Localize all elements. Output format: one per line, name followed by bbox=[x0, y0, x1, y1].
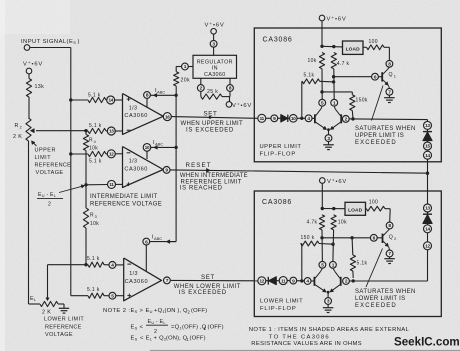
svg-text:SET: SET bbox=[201, 274, 215, 281]
resistor 5.1k op2 minus bbox=[71, 153, 88, 155]
svg-text:LOWER LIMIT: LOWER LIMIT bbox=[44, 317, 84, 323]
pin 15 upper chain bbox=[424, 142, 432, 150]
wire 100 to pin 8 lower bbox=[385, 208, 390, 210]
svg-text:(OFF): (OFF) bbox=[208, 325, 224, 331]
upper limit reference voltage label bbox=[32, 142, 37, 147]
IABC wire op2 bbox=[151, 146, 176, 148]
svg-text:10: 10 bbox=[145, 145, 150, 150]
svg-text:5.1k: 5.1k bbox=[304, 73, 315, 79]
svg-text:13: 13 bbox=[425, 206, 430, 211]
svg-text:WHEN LOWER LIMIT: WHEN LOWER LIMIT bbox=[174, 284, 241, 290]
pin 5 op3 bbox=[109, 292, 116, 299]
LOAD box lower bbox=[345, 202, 366, 215]
pin 1 regulator bbox=[188, 66, 193, 68]
flip-flop transistor left lower bbox=[313, 277, 315, 286]
pin 9 upper input bbox=[271, 115, 278, 122]
svg-text:V⁺•6V: V⁺•6V bbox=[327, 16, 347, 23]
svg-text:SATURATES WHEN: SATURATES WHEN bbox=[355, 126, 416, 132]
svg-text:14: 14 bbox=[108, 98, 113, 103]
svg-text:ES: ES bbox=[131, 308, 138, 314]
svg-text:FLIP-FLOP: FLIP-FLOP bbox=[260, 151, 297, 157]
pin 14 bbox=[107, 96, 115, 104]
wire pin2 to diode chain bbox=[349, 118, 353, 120]
svg-text:ES: ES bbox=[131, 325, 138, 331]
svg-text:150 k: 150 k bbox=[301, 235, 315, 241]
wire 100 to pin 8 upper bbox=[384, 46, 389, 48]
pin 1 upper flip-flop bbox=[331, 99, 338, 106]
V+ 6V terminal regulator right bbox=[226, 102, 232, 108]
svg-text:IABC: IABC bbox=[152, 235, 162, 241]
svg-text:SATURATES WHEN: SATURATES WHEN bbox=[355, 289, 416, 295]
diode lower external bbox=[427, 212, 429, 214]
wire Q2 base rung lower bbox=[322, 237, 370, 239]
svg-text:CA3086: CA3086 bbox=[263, 37, 293, 44]
pin 9 output op2 bbox=[163, 167, 170, 174]
svg-text:INPUT SIGNAL(ES: INPUT SIGNAL(ES bbox=[21, 39, 76, 45]
resistor 5.1k op3 plus bbox=[71, 295, 88, 297]
svg-text:4.7k: 4.7k bbox=[307, 220, 318, 226]
svg-text:): ) bbox=[78, 39, 80, 45]
EL wiper arrow bbox=[47, 265, 49, 299]
svg-text:12: 12 bbox=[260, 279, 265, 284]
svg-text:EU: EU bbox=[146, 308, 153, 314]
resistor 13k bbox=[26, 79, 31, 98]
pin 8 Q2 collector bbox=[386, 222, 393, 229]
svg-text:REFERENCE: REFERENCE bbox=[35, 163, 72, 169]
pin 10 upper bbox=[290, 115, 298, 123]
svg-text:V⁺•6V: V⁺•6V bbox=[232, 102, 252, 109]
svg-text:INTERMEDIATE LIMIT: INTERMEDIATE LIMIT bbox=[90, 194, 158, 200]
wire 4.7k to pin 5 lower bbox=[321, 230, 323, 262]
svg-text:100: 100 bbox=[369, 39, 378, 45]
resistor 4.7k upper bbox=[331, 53, 336, 69]
svg-text:(OFF): (OFF) bbox=[191, 308, 207, 314]
lower CA3086 box outline bbox=[254, 191, 441, 317]
pin 6 Q1 base bbox=[372, 73, 379, 80]
LOAD box upper bbox=[343, 41, 364, 54]
svg-text:REFERENCE VOLTAGE: REFERENCE VOLTAGE bbox=[90, 201, 162, 207]
svg-text:20k: 20k bbox=[181, 78, 190, 84]
svg-text:3: 3 bbox=[95, 215, 97, 219]
svg-text:100: 100 bbox=[369, 200, 378, 206]
ground upper flip-flop bbox=[323, 144, 334, 146]
svg-text:CA3060: CA3060 bbox=[125, 279, 149, 285]
pin 7 output op3 bbox=[164, 277, 171, 284]
pin 7 Q2 emitter bbox=[386, 250, 393, 257]
upper CA3086 box outline bbox=[254, 28, 441, 162]
svg-text:10k: 10k bbox=[308, 58, 317, 64]
wire 5.1k left leg down bbox=[301, 80, 303, 82]
svg-text:R: R bbox=[90, 213, 94, 219]
ground lower flip-flop bbox=[323, 307, 334, 309]
svg-text:TO THE CA3086: TO THE CA3086 bbox=[269, 334, 330, 340]
svg-text:EU: EU bbox=[148, 319, 155, 325]
svg-text:12: 12 bbox=[425, 244, 430, 249]
pin 2 lower bbox=[343, 278, 350, 285]
pin 14 upper chain bbox=[424, 151, 432, 159]
node intermediate reference junction bbox=[84, 183, 87, 186]
pin 9 lower bbox=[290, 277, 297, 284]
wire common emitter to pin 3 lower bbox=[327, 292, 329, 298]
svg-text:LOAD: LOAD bbox=[348, 208, 363, 214]
pin 13 upper diode chain bbox=[424, 121, 432, 129]
wire pin10 to pin4 bbox=[297, 117, 305, 119]
resistor 150k upper bbox=[350, 95, 355, 111]
wire common emitter to pin 3 upper bbox=[328, 129, 330, 135]
svg-text:SET: SET bbox=[204, 110, 218, 117]
resistor 5.1k op1 minus bbox=[88, 128, 106, 133]
flip-flop transistor right upper bbox=[340, 114, 342, 123]
svg-text:REFERENCE LIMIT: REFERENCE LIMIT bbox=[181, 179, 243, 185]
svg-text:25 k: 25 k bbox=[207, 89, 218, 95]
regulator box REGULATOR IN CA3060 bbox=[193, 55, 237, 78]
wire pin2 to diode chain lower bbox=[349, 280, 427, 282]
svg-text:(ON), Q: (ON), Q bbox=[166, 336, 188, 342]
wire EL to ground bbox=[58, 303, 64, 305]
pin 4 op3 bbox=[109, 262, 116, 269]
svg-text:2: 2 bbox=[48, 202, 51, 208]
SET wire op3 to lower flip-flop bbox=[171, 279, 258, 281]
svg-text:<: < bbox=[140, 325, 144, 331]
svg-text:13k: 13k bbox=[35, 84, 45, 90]
svg-text:2 K: 2 K bbox=[13, 134, 22, 140]
RESET wire op2 to flip-flops bbox=[170, 170, 428, 173]
pin 12 lower input bbox=[258, 277, 266, 285]
svg-text:5.1 k: 5.1 k bbox=[87, 256, 100, 262]
flip-flop transistor right lower bbox=[340, 277, 342, 286]
svg-text:1/3: 1/3 bbox=[129, 271, 138, 277]
op-amp U2 1/3 CA3060 bbox=[123, 147, 164, 188]
svg-text:IN: IN bbox=[212, 66, 218, 72]
wire to pin 9 upper bbox=[266, 117, 271, 119]
svg-text:LOAD: LOAD bbox=[346, 46, 361, 52]
ground EL bbox=[59, 307, 70, 309]
pin 4 upper bbox=[305, 115, 312, 122]
svg-text:>: > bbox=[140, 308, 144, 314]
resistor 4.7k lower bbox=[319, 215, 324, 230]
resistor 25k bbox=[201, 94, 222, 99]
svg-text:FLIP-FLOP: FLIP-FLOP bbox=[260, 306, 297, 312]
svg-text:15: 15 bbox=[425, 144, 430, 149]
IABC bias bus wire bbox=[175, 86, 177, 95]
svg-text:WHEN INTERMEDIATE: WHEN INTERMEDIATE bbox=[180, 173, 248, 179]
svg-text:IS REACHED: IS REACHED bbox=[180, 186, 223, 192]
pin 14 lower chain bbox=[424, 225, 432, 233]
svg-text:11: 11 bbox=[109, 182, 114, 187]
svg-text:UPPER: UPPER bbox=[35, 148, 56, 154]
resistor 10k lower bbox=[331, 215, 336, 230]
saturates when lower leader line bbox=[366, 249, 383, 288]
upper load rail wire bbox=[322, 45, 343, 48]
pin 6 Q2 base bbox=[370, 234, 377, 241]
svg-text:11: 11 bbox=[260, 116, 265, 121]
node junction input to op2 bbox=[69, 152, 72, 155]
wire Q1 base rung upper bbox=[334, 76, 372, 78]
svg-text:16: 16 bbox=[165, 114, 170, 119]
resistor R3 10k bbox=[83, 208, 88, 228]
svg-text:4.7 k: 4.7 k bbox=[337, 61, 350, 67]
svg-text:5.1k: 5.1k bbox=[357, 261, 368, 267]
pin 3 regulator bbox=[210, 40, 217, 47]
svg-text:CA3060: CA3060 bbox=[124, 167, 148, 173]
lower load rail wire bbox=[322, 208, 345, 210]
flip-flop transistor left upper bbox=[314, 114, 316, 123]
pin 1 lower flip-flop bbox=[330, 261, 337, 268]
svg-text:10: 10 bbox=[291, 116, 296, 121]
resistor R4 10k bbox=[85, 131, 87, 135]
pin 11 bbox=[108, 180, 116, 188]
svg-text:13: 13 bbox=[109, 129, 114, 134]
pin 10 bias op2 bbox=[143, 144, 151, 152]
pin 3 upper bbox=[325, 135, 332, 142]
resistor 100 lower bbox=[365, 208, 368, 210]
svg-text:LIMIT: LIMIT bbox=[35, 155, 52, 161]
svg-text:SeekIC.com: SeekIC.com bbox=[394, 336, 460, 349]
pin 5 lower flip-flop bbox=[319, 261, 326, 268]
svg-text:5.1 k: 5.1 k bbox=[88, 93, 101, 99]
svg-text:EL: EL bbox=[160, 319, 167, 325]
wire input signal vertical bus bbox=[70, 48, 72, 296]
V+ 6V terminal lower box bbox=[320, 178, 326, 184]
wire R2 bottom to EL pot bbox=[28, 141, 30, 304]
svg-text:ES: ES bbox=[131, 336, 138, 342]
wire 10k to pin 5 bbox=[321, 69, 323, 100]
svg-text:EL: EL bbox=[30, 296, 37, 302]
op-amp U1 1/3 CA3060 bbox=[123, 94, 164, 135]
saturates when upper leader line bbox=[372, 86, 384, 121]
svg-text:10k: 10k bbox=[90, 221, 99, 227]
svg-text:1/3: 1/3 bbox=[129, 106, 138, 112]
svg-text:EXCEEDED: EXCEEDED bbox=[355, 140, 397, 146]
potentiometer EL 2K bbox=[40, 301, 58, 306]
svg-text:EXCEEDED: EXCEEDED bbox=[355, 303, 397, 309]
svg-text:EU: EU bbox=[38, 192, 45, 198]
pin 11 lower bbox=[279, 277, 287, 285]
svg-text:REFERENCE: REFERENCE bbox=[45, 324, 82, 330]
svg-text:Q: Q bbox=[389, 235, 393, 241]
wire chain down to reset bus bbox=[427, 159, 429, 204]
resistor 20k bbox=[174, 72, 179, 86]
R2 wiper arrow and wire bbox=[36, 130, 86, 132]
resistor 5.1k lower bbox=[351, 238, 354, 255]
potentiometer R2 2K bbox=[26, 118, 31, 141]
pin 8 bias op1 bbox=[144, 92, 151, 99]
pin 13 lower diode chain bbox=[424, 204, 432, 212]
svg-text:RESET: RESET bbox=[186, 162, 212, 169]
svg-text:UPPER LIMIT IS: UPPER LIMIT IS bbox=[355, 133, 404, 139]
pin 16 output op1 bbox=[162, 115, 164, 117]
pin 2 regulator bbox=[200, 78, 202, 84]
V+ 6V terminal upper box bbox=[319, 15, 325, 21]
ground Q1 bbox=[384, 97, 395, 99]
node junction input to op1 bbox=[69, 98, 72, 101]
svg-text:13: 13 bbox=[425, 123, 430, 128]
svg-text:2 K: 2 K bbox=[42, 310, 51, 316]
pin 12 lower chain bbox=[424, 242, 432, 250]
svg-text:2: 2 bbox=[154, 329, 157, 335]
svg-text:11: 11 bbox=[281, 278, 286, 283]
pin 12 bbox=[107, 150, 115, 158]
svg-text:NOTE 2 :: NOTE 2 : bbox=[103, 308, 130, 314]
svg-text:EL: EL bbox=[50, 192, 57, 198]
wire 10k to pin 1 lower bbox=[332, 230, 335, 262]
pin 8 regulator bbox=[229, 78, 231, 84]
wire input signal to vertical bus bbox=[30, 47, 71, 49]
wire V+ into lower box bbox=[321, 183, 323, 208]
svg-text:IS EXCEEDED: IS EXCEEDED bbox=[186, 128, 234, 134]
svg-text:NOTE 1 : ITEMS IN SHADED AREAS: NOTE 1 : ITEMS IN SHADED AREAS ARE EXTER… bbox=[249, 327, 410, 333]
resistor 100 upper bbox=[363, 46, 367, 48]
wire 150k left leg down bbox=[301, 243, 302, 245]
svg-text:CA3086: CA3086 bbox=[262, 199, 292, 206]
pin 11 upper input bbox=[258, 114, 266, 122]
svg-text:RESISTANCE VALUES ARE IN OHM: RESISTANCE VALUES ARE IN OHMS bbox=[251, 341, 362, 347]
svg-text:LOWER LIMIT IS: LOWER LIMIT IS bbox=[355, 296, 405, 302]
svg-text:5.1 k: 5.1 k bbox=[87, 287, 100, 293]
wire 150k rung upper bbox=[322, 91, 352, 93]
pin 3 lower bbox=[325, 298, 332, 305]
svg-text:UPPER LIMIT: UPPER LIMIT bbox=[260, 144, 302, 150]
svg-text:VOLTAGE: VOLTAGE bbox=[45, 332, 73, 338]
svg-text:IABC: IABC bbox=[153, 140, 163, 146]
svg-text:1: 1 bbox=[394, 74, 396, 79]
svg-text:4: 4 bbox=[94, 140, 96, 144]
svg-text:CA3060: CA3060 bbox=[124, 113, 148, 119]
pin 7 Q1 emitter bbox=[386, 88, 393, 95]
IABC wire op3 bbox=[150, 241, 176, 243]
pin 2 upper bbox=[342, 116, 349, 123]
svg-text:LOWER LIMIT: LOWER LIMIT bbox=[260, 298, 303, 304]
node junction R2 wiper bbox=[84, 129, 87, 132]
svg-text:10k: 10k bbox=[89, 146, 98, 152]
svg-text:WHEN UPPER LIMIT: WHEN UPPER LIMIT bbox=[181, 121, 244, 127]
svg-text:V⁺•6V: V⁺•6V bbox=[23, 61, 43, 68]
wire V+ into upper box bbox=[321, 21, 323, 47]
svg-text:-: - bbox=[47, 192, 49, 198]
svg-text:+Q1: +Q1 bbox=[154, 308, 165, 314]
svg-text:1/3: 1/3 bbox=[129, 159, 138, 165]
svg-text:-: - bbox=[156, 319, 158, 325]
svg-text:14: 14 bbox=[425, 227, 430, 232]
SET wire op1 to upper flip-flop bbox=[171, 117, 257, 119]
wire pin9 to pin4 lower bbox=[297, 280, 305, 282]
svg-text:+ Q2: + Q2 bbox=[154, 336, 167, 342]
svg-text:5.1 k: 5.1 k bbox=[89, 159, 102, 165]
svg-text:R: R bbox=[15, 123, 19, 129]
resistor 5.1k op1 plus bbox=[71, 99, 88, 101]
svg-text:REGULATOR: REGULATOR bbox=[197, 59, 233, 65]
pin 6 bias op3 bbox=[143, 238, 150, 245]
wire 4.7k to pin 1 bbox=[333, 69, 335, 100]
svg-text:V⁺•6V: V⁺•6V bbox=[205, 22, 225, 29]
resistor 10k upper bbox=[319, 53, 324, 69]
bottom scan streak bbox=[150, 350, 460, 351]
svg-text:R: R bbox=[89, 138, 93, 144]
ground Q2 bbox=[384, 258, 395, 260]
svg-text:150k: 150k bbox=[356, 98, 368, 104]
svg-text:CA3060: CA3060 bbox=[204, 72, 226, 78]
op-amp U3 1/3 CA3060 bbox=[124, 258, 162, 301]
svg-text:V⁺•6V: V⁺•6V bbox=[327, 178, 347, 185]
svg-text:2: 2 bbox=[394, 236, 396, 241]
pin 4 lower bbox=[304, 278, 311, 285]
svg-text:(OFF): (OFF) bbox=[190, 336, 206, 342]
svg-text:12: 12 bbox=[109, 152, 114, 157]
pin 13 bbox=[107, 127, 115, 135]
svg-text:10k: 10k bbox=[338, 220, 347, 226]
wire pin14 to pin12 bbox=[427, 233, 429, 242]
svg-text:=Q1: =Q1 bbox=[171, 325, 182, 331]
svg-text:14: 14 bbox=[425, 153, 430, 158]
svg-text:< EL: < EL bbox=[140, 336, 153, 342]
wire to pin 9 lower bbox=[287, 280, 290, 282]
diode lower input bbox=[266, 280, 269, 282]
resistor 5.1k op3 minus bbox=[84, 263, 87, 266]
diode upper external bbox=[427, 129, 429, 131]
svg-text:IABC: IABC bbox=[155, 88, 165, 94]
svg-text:VOLTAGE: VOLTAGE bbox=[36, 170, 64, 176]
wire to pin 11 bbox=[86, 184, 108, 186]
pin 8 Q1 collector bbox=[386, 60, 393, 67]
svg-text:IS EXCEEDED: IS EXCEEDED bbox=[179, 290, 227, 296]
pin 5 upper flip-flop bbox=[319, 99, 326, 106]
svg-text:5.1 k: 5.1 k bbox=[89, 123, 102, 129]
svg-text:Q: Q bbox=[389, 72, 393, 78]
IABC wire op1 bbox=[150, 94, 175, 96]
leader arrow to intermediate node bbox=[59, 186, 83, 192]
svg-text:(ON ), Q: (ON ), Q bbox=[165, 308, 188, 314]
diode upper input bbox=[278, 117, 281, 119]
